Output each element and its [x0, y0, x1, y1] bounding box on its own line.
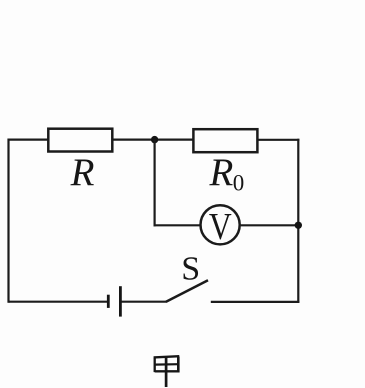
wire bottom-left segment to battery — [9, 301, 108, 303]
battery cell long plate (positive) — [119, 286, 122, 316]
voltmeter U1 circle — [201, 205, 240, 244]
node B junction dot (voltmeter to right wire) — [295, 222, 302, 229]
switch S blade (open) — [166, 280, 208, 302]
wire vertical from node A down to voltmeter branch — [154, 140, 156, 227]
resistor R — [48, 129, 112, 152]
svg-text:0: 0 — [233, 171, 245, 196]
wire switch right contact to bottom-right corner — [211, 301, 300, 303]
wire voltmeter branch left segment — [154, 224, 200, 226]
wire left vertical side — [7, 139, 9, 303]
wire voltmeter branch right segment — [241, 224, 299, 226]
node A junction dot (between R and R0) — [151, 136, 158, 143]
wire top-left horizontal (battery loop top, left of R) — [9, 139, 49, 141]
svg-text:V: V — [209, 205, 232, 247]
svg-text:S: S — [181, 251, 200, 288]
wire from R0 to top-right corner — [257, 139, 299, 141]
voltmeter label V — [209, 205, 232, 247]
svg-text:R: R — [70, 151, 95, 194]
wire right vertical side — [297, 139, 299, 303]
resistor R0 — [193, 129, 257, 152]
battery cell short plate (negative) — [107, 295, 110, 308]
wire battery to switch pivot — [122, 301, 167, 303]
caption glyph 甲 (drawn) — [154, 356, 180, 387]
svg-text:R: R — [209, 151, 234, 194]
wire between R and R0 through node A — [112, 139, 194, 141]
